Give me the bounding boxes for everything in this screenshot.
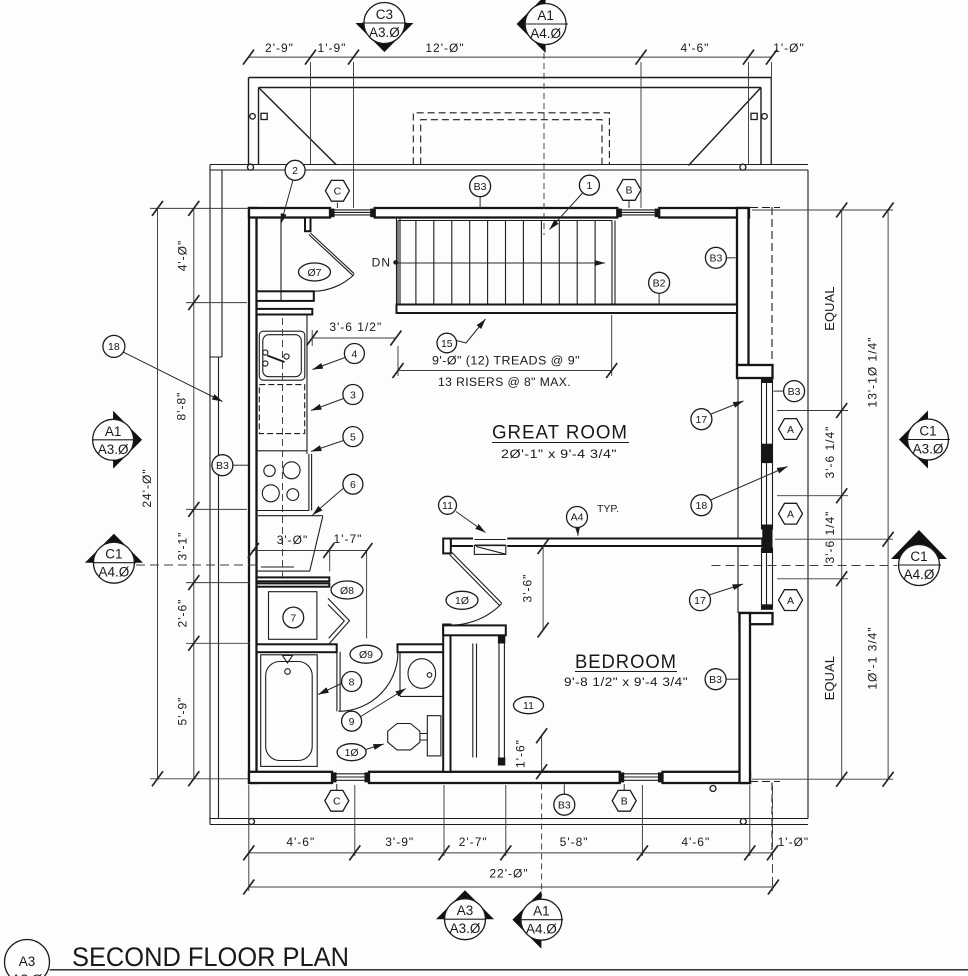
svg-text:A3.Ø: A3.Ø — [369, 25, 400, 40]
svg-text:B: B — [625, 185, 632, 197]
svg-text:GREAT ROOM: GREAT ROOM — [492, 423, 628, 444]
svg-text:C3: C3 — [376, 7, 393, 22]
svg-text:1'-Ø": 1'-Ø" — [778, 835, 810, 849]
svg-text:18: 18 — [108, 341, 120, 353]
svg-text:8'-8": 8'-8" — [175, 392, 189, 421]
svg-text:3'-6 1/2": 3'-6 1/2" — [329, 320, 382, 334]
svg-text:12'-Ø": 12'-Ø" — [425, 41, 464, 55]
svg-text:15: 15 — [441, 338, 453, 350]
svg-text:17: 17 — [696, 414, 708, 426]
svg-text:4'-6": 4'-6" — [681, 41, 710, 55]
svg-text:1'-Ø": 1'-Ø" — [773, 41, 805, 55]
svg-text:EQUAL: EQUAL — [822, 286, 837, 330]
svg-text:6: 6 — [350, 479, 356, 491]
svg-text:4'-Ø": 4'-Ø" — [176, 240, 190, 272]
svg-text:B3: B3 — [558, 800, 571, 812]
svg-text:A4.Ø: A4.Ø — [526, 922, 557, 937]
svg-text:13'-1Ø 1/4": 13'-1Ø 1/4" — [866, 337, 880, 408]
svg-text:13 RISERS @ 8" MAX.: 13 RISERS @ 8" MAX. — [438, 377, 571, 389]
svg-text:BEDROOM: BEDROOM — [575, 652, 677, 673]
svg-text:9: 9 — [349, 716, 355, 728]
svg-text:A4.Ø: A4.Ø — [904, 567, 935, 582]
svg-text:7: 7 — [290, 612, 296, 624]
svg-text:A3.Ø: A3.Ø — [12, 972, 43, 976]
svg-text:5'-8": 5'-8" — [560, 835, 589, 849]
svg-text:4: 4 — [351, 348, 357, 360]
svg-text:2: 2 — [292, 165, 298, 177]
svg-text:1Ø: 1Ø — [345, 747, 359, 759]
svg-text:9'-8 1/2" x 9'-4 3/4": 9'-8 1/2" x 9'-4 3/4" — [564, 677, 688, 689]
svg-text:3'-6": 3'-6" — [521, 574, 535, 603]
svg-text:3'-1": 3'-1" — [176, 532, 190, 561]
svg-text:B3: B3 — [709, 674, 722, 686]
svg-text:A4.Ø: A4.Ø — [99, 565, 130, 580]
svg-text:Ø9: Ø9 — [359, 649, 373, 661]
svg-text:EQUAL: EQUAL — [822, 656, 837, 700]
svg-text:A3: A3 — [457, 903, 474, 918]
svg-text:24'-Ø": 24'-Ø" — [140, 468, 154, 507]
svg-text:C: C — [334, 186, 342, 198]
svg-text:B3: B3 — [709, 253, 722, 265]
svg-text:A1: A1 — [533, 904, 550, 919]
svg-text:B: B — [621, 796, 628, 808]
svg-text:A: A — [787, 424, 794, 436]
svg-text:A3.Ø: A3.Ø — [98, 442, 129, 457]
svg-text:B3: B3 — [474, 181, 487, 193]
svg-text:1Ø'-1 3/4": 1Ø'-1 3/4" — [866, 626, 880, 689]
svg-text:A3: A3 — [19, 954, 36, 969]
svg-text:4'-6": 4'-6" — [681, 835, 710, 849]
svg-text:17: 17 — [694, 595, 706, 607]
svg-text:A4.Ø: A4.Ø — [530, 26, 561, 41]
svg-text:3'-6 1/4": 3'-6 1/4" — [823, 511, 837, 564]
svg-text:3'-9": 3'-9" — [385, 835, 414, 849]
svg-text:2'-7": 2'-7" — [459, 835, 488, 849]
svg-text:11: 11 — [442, 500, 453, 512]
svg-text:3: 3 — [350, 389, 356, 401]
svg-text:C1: C1 — [105, 547, 122, 562]
svg-text:A4: A4 — [571, 512, 584, 524]
svg-text:18: 18 — [696, 500, 708, 512]
svg-text:1'-7": 1'-7" — [334, 532, 363, 546]
svg-text:5: 5 — [350, 431, 356, 443]
svg-text:DN: DN — [372, 256, 391, 270]
svg-text:1'-6": 1'-6" — [514, 739, 528, 768]
svg-text:8: 8 — [349, 676, 355, 688]
svg-text:3'-6 1/4": 3'-6 1/4" — [823, 426, 837, 479]
svg-text:A: A — [787, 595, 794, 607]
svg-text:SECOND FLOOR PLAN: SECOND FLOOR PLAN — [72, 942, 349, 972]
svg-text:2'-9": 2'-9" — [265, 41, 294, 55]
svg-text:4'-6": 4'-6" — [286, 835, 315, 849]
svg-text:1: 1 — [586, 180, 592, 192]
svg-text:Ø8: Ø8 — [340, 585, 354, 597]
svg-text:Ø7: Ø7 — [307, 267, 321, 279]
svg-text:C1: C1 — [919, 424, 936, 439]
svg-text:C1: C1 — [910, 549, 927, 564]
svg-text:5'-9": 5'-9" — [176, 697, 190, 726]
svg-text:3'-Ø": 3'-Ø" — [277, 533, 309, 547]
svg-text:B3: B3 — [788, 386, 801, 398]
svg-text:9'-Ø" (12) TREADS @ 9": 9'-Ø" (12) TREADS @ 9" — [432, 356, 580, 368]
svg-text:A3.Ø: A3.Ø — [913, 442, 944, 457]
svg-text:A: A — [787, 509, 794, 521]
svg-text:1Ø: 1Ø — [455, 595, 469, 607]
svg-text:A1: A1 — [105, 424, 122, 439]
svg-text:2Ø'-1" x 9'-4 3/4": 2Ø'-1" x 9'-4 3/4" — [501, 449, 617, 461]
svg-text:A1: A1 — [537, 8, 554, 23]
svg-text:1'-9": 1'-9" — [318, 41, 347, 55]
svg-text:11: 11 — [523, 700, 534, 712]
svg-text:B2: B2 — [653, 278, 666, 290]
svg-text:2'-6": 2'-6" — [176, 599, 190, 628]
svg-text:TYP.: TYP. — [597, 503, 619, 515]
svg-text:C: C — [333, 796, 341, 808]
svg-text:B3: B3 — [216, 460, 229, 472]
svg-text:A3.Ø: A3.Ø — [450, 921, 481, 936]
svg-text:22'-Ø": 22'-Ø" — [489, 867, 528, 881]
